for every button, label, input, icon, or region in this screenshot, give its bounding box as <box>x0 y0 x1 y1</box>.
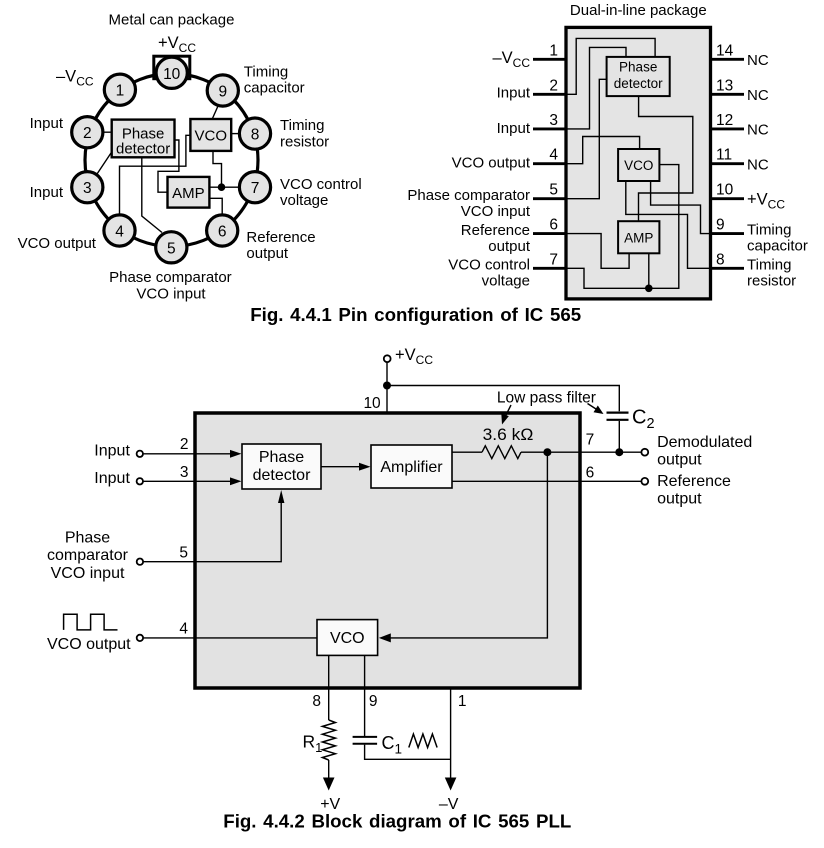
arrow +V <box>323 778 335 791</box>
wire pin4 to VCO top <box>566 137 640 164</box>
wire pin7 to bottom rail to VCO right <box>566 165 679 289</box>
svg-text:Dual-in-line package: Dual-in-line package <box>570 2 707 19</box>
Phase detector box <box>242 444 321 489</box>
junction dot C2 line <box>615 448 623 456</box>
square wave glyph <box>64 614 118 630</box>
svg-text:NC: NC <box>747 52 769 69</box>
svg-text:NC: NC <box>747 122 769 139</box>
right pin numbers <box>716 42 734 268</box>
wire+arrow pin2 to Phase detector <box>143 453 233 455</box>
resistor 3.6k zigzag <box>482 446 521 459</box>
svg-text:3: 3 <box>83 180 92 197</box>
pin 8 <box>239 118 270 149</box>
pin 6 stub <box>533 232 566 235</box>
svg-text:detector: detector <box>614 76 663 91</box>
svg-text:Input: Input <box>497 120 531 137</box>
svg-text:VCO: VCO <box>624 158 653 173</box>
svg-text:9: 9 <box>218 84 227 101</box>
IC body box <box>195 413 580 688</box>
svg-text:+VCC: +VCC <box>395 346 433 367</box>
feedback wire from pin7 node to VCO <box>388 452 547 638</box>
svg-text:NC: NC <box>747 87 769 104</box>
svg-text:10: 10 <box>163 66 181 83</box>
pin circles 1-10 <box>72 57 271 263</box>
svg-text:AMP: AMP <box>172 185 205 202</box>
pin 9 <box>207 75 238 106</box>
wire+arrow pin3 to Phase detector <box>143 480 233 482</box>
svg-text:Input: Input <box>94 470 130 487</box>
svg-text:Phase comparator: Phase comparator <box>109 269 232 286</box>
pin 2 <box>72 117 103 148</box>
wire Phase detector bottom to AMP top <box>639 96 693 221</box>
capacitor C2 plates <box>607 412 629 414</box>
wire pin2 to Phase detector <box>95 131 112 133</box>
svg-text:7: 7 <box>586 432 595 449</box>
svg-text:Reference: Reference <box>657 473 731 490</box>
wire pin2 to Phase detector top <box>566 38 655 94</box>
AMP box <box>168 177 210 208</box>
wire pin9 to VCO <box>212 97 222 120</box>
svg-text:Timing: Timing <box>747 222 791 239</box>
pin 2 stub <box>533 93 566 96</box>
svg-text:8: 8 <box>716 251 725 268</box>
wire AMP to pin6 <box>209 198 222 215</box>
svg-text:5: 5 <box>549 182 558 199</box>
pin-10 tab square <box>154 56 190 78</box>
pin numbers <box>83 66 259 257</box>
svg-text:VCO input: VCO input <box>136 286 206 303</box>
svg-text:Timing: Timing <box>747 256 791 273</box>
arrow from label to C2 <box>588 404 597 410</box>
+Vcc terminal circle <box>384 355 391 362</box>
pin1 wire from box bottom <box>450 688 452 779</box>
pin 3 <box>72 172 103 203</box>
pin5 terminal <box>137 559 143 565</box>
pin 12 stub <box>711 127 745 130</box>
svg-text:output: output <box>246 245 289 262</box>
wire AMP bottom to ground junction <box>648 253 650 288</box>
svg-text:VCO output: VCO output <box>47 636 131 653</box>
wire pin4 to VCO <box>143 637 317 639</box>
svg-text:VCO: VCO <box>330 630 365 647</box>
svg-text:Fig. 4.4.2 Block diagram of IC: Fig. 4.4.2 Block diagram of IC 565 PLL <box>223 810 571 831</box>
reference output terminal <box>641 478 648 485</box>
left pin numbers <box>549 42 558 268</box>
svg-text:Low pass filter: Low pass filter <box>497 390 596 407</box>
svg-text:Phase: Phase <box>65 530 110 547</box>
pin8 wire from VCO bottom <box>328 655 330 720</box>
wire resistor to demodulated output terminal <box>521 451 641 453</box>
svg-text:Reference: Reference <box>246 229 315 246</box>
internal wires <box>566 38 711 288</box>
svg-text:1: 1 <box>458 693 467 710</box>
svg-text:Input: Input <box>30 115 64 132</box>
svg-text:voltage: voltage <box>482 273 530 290</box>
left pin stubs 1-7 <box>533 59 744 268</box>
svg-text:AMP: AMP <box>624 230 653 245</box>
wire pin3 to Phase detector top <box>566 47 626 128</box>
svg-text:1: 1 <box>549 42 558 59</box>
pin 5 stub <box>533 197 566 200</box>
svg-text:Reference: Reference <box>461 222 530 239</box>
wire C2 to output line <box>618 421 620 452</box>
pin 4 <box>104 215 135 246</box>
pin 4 stub <box>533 162 566 165</box>
svg-text:NC: NC <box>747 156 769 173</box>
arrow from label to resistor <box>506 405 512 416</box>
pin 1 stub <box>533 58 566 61</box>
wire pin3 to Phase detector <box>97 152 112 175</box>
svg-text:VCO input: VCO input <box>51 565 125 582</box>
svg-text:Timing: Timing <box>244 64 288 81</box>
svg-text:9: 9 <box>716 217 725 234</box>
pin 10 <box>156 57 187 88</box>
AMP box (DIP) <box>618 221 659 253</box>
svg-text:3: 3 <box>549 112 558 129</box>
svg-text:C2: C2 <box>632 407 655 433</box>
svg-text:Input: Input <box>30 184 64 201</box>
wire pin5 to Phase detector left <box>566 79 607 198</box>
svg-text:3.6 kΩ: 3.6 kΩ <box>483 426 534 444</box>
pin 3 stub <box>533 127 566 130</box>
wire pin10 vertical <box>386 362 388 413</box>
svg-text:8: 8 <box>312 693 321 710</box>
svg-text:7: 7 <box>251 180 260 197</box>
svg-text:4: 4 <box>549 147 558 164</box>
svg-text:voltage: voltage <box>280 192 328 209</box>
svg-text:–VCC: –VCC <box>492 49 530 70</box>
svg-text:Amplifier: Amplifier <box>380 459 443 476</box>
svg-text:8: 8 <box>251 127 260 144</box>
pin 14 stub <box>711 58 745 61</box>
pin 13 stub <box>711 93 745 96</box>
svg-text:1: 1 <box>116 83 125 100</box>
Amplifier box <box>371 445 452 488</box>
wire pin8 to VCO <box>231 133 242 135</box>
svg-text:VCO control: VCO control <box>448 257 530 274</box>
svg-text:+VCC: +VCC <box>747 191 785 212</box>
arrow -V <box>445 778 457 791</box>
pin 5 <box>156 232 187 263</box>
svg-text:Input: Input <box>94 443 130 460</box>
junction dot <box>218 183 226 191</box>
svg-text:5: 5 <box>167 240 176 257</box>
pin 7 stub <box>533 267 566 270</box>
svg-text:3: 3 <box>180 464 189 481</box>
svg-text:detector: detector <box>253 467 311 484</box>
junction dot on bottom rail <box>645 285 653 293</box>
svg-text:Demodulated: Demodulated <box>657 434 752 451</box>
wire pin6 to AMP bottom <box>566 234 629 269</box>
wire AMP output to pin7 <box>209 186 239 188</box>
svg-text:10: 10 <box>716 182 734 199</box>
small zigzag glyph next to C1 <box>409 734 437 748</box>
svg-text:11: 11 <box>716 147 732 164</box>
pin 10 stub <box>711 197 745 200</box>
wire VCO bottom to junction <box>213 151 222 187</box>
wire Phase detector output to AMP input <box>158 140 179 192</box>
VCO box <box>190 119 231 151</box>
svg-text:VCO control: VCO control <box>280 176 362 193</box>
svg-text:2: 2 <box>180 436 189 453</box>
svg-text:Input: Input <box>497 85 531 102</box>
svg-text:6: 6 <box>549 217 558 234</box>
svg-text:2: 2 <box>549 77 558 94</box>
svg-text:14: 14 <box>716 42 734 59</box>
svg-text:+VCC: +VCC <box>158 34 196 55</box>
svg-text:VCO: VCO <box>195 128 228 145</box>
svg-text:5: 5 <box>179 545 188 562</box>
pin3 terminal <box>137 478 143 484</box>
pin 7 <box>239 172 270 203</box>
can outline ring <box>85 74 258 247</box>
svg-text:7: 7 <box>549 251 558 268</box>
svg-text:Phase comparator: Phase comparator <box>407 187 530 204</box>
pin4 terminal <box>137 635 143 641</box>
pin 6 <box>207 215 238 246</box>
wire pin4 to VCO input <box>120 135 191 214</box>
svg-text:Phase: Phase <box>259 449 304 466</box>
svg-text:Metal can package: Metal can package <box>109 12 235 29</box>
wire Phase detector to pin5 <box>142 157 162 232</box>
wire VCO bottom-left to pin8 (timing resistor) <box>626 181 711 268</box>
svg-text:detector: detector <box>116 141 170 158</box>
svg-text:VCO input: VCO input <box>461 203 531 220</box>
svg-text:12: 12 <box>716 112 733 129</box>
svg-text:output: output <box>488 238 531 255</box>
pin9 wire from VCO bottom <box>364 655 366 736</box>
pin 9 stub <box>711 232 745 235</box>
pin2 terminal <box>137 451 143 457</box>
svg-text:output: output <box>657 491 702 508</box>
VCO box (DIP) <box>618 149 659 181</box>
svg-text:comparator: comparator <box>47 547 129 564</box>
svg-text:R1: R1 <box>303 732 323 756</box>
arrow Phase detector to Amplifier <box>321 466 362 468</box>
svg-text:13: 13 <box>716 77 733 94</box>
Phase detector box (DIP) <box>607 57 670 96</box>
VCO box <box>317 620 378 656</box>
svg-text:10: 10 <box>363 395 381 412</box>
svg-text:2: 2 <box>83 125 92 142</box>
svg-text:VCO output: VCO output <box>18 235 97 252</box>
wire C1 bottom to pin1 line <box>365 745 451 760</box>
wire+arrow pin5 to Phase detector bottom <box>143 500 281 562</box>
DIP body <box>566 27 711 299</box>
svg-text:Fig. 4.4.1 Pin configuration o: Fig. 4.4.1 Pin configuration of IC 565 <box>250 304 581 325</box>
wire VCO bottom to pin9 (timing capacitor) <box>651 181 711 234</box>
svg-text:9: 9 <box>369 693 378 710</box>
wire +Vcc to C2 <box>387 386 619 412</box>
svg-text:4: 4 <box>179 621 188 638</box>
capacitor C1 plates <box>353 736 378 738</box>
Phase detector box <box>112 120 175 158</box>
resistor R1 zigzag <box>322 720 335 760</box>
svg-text:Timing: Timing <box>280 117 324 134</box>
svg-text:4: 4 <box>115 224 124 241</box>
wire Amplifier to resistor <box>452 451 482 453</box>
svg-text:capacitor: capacitor <box>747 238 808 255</box>
svg-text:capacitor: capacitor <box>244 80 305 97</box>
svg-text:resistor: resistor <box>747 272 796 289</box>
wire pin6 reference output <box>452 480 641 482</box>
svg-text:6: 6 <box>586 465 595 482</box>
svg-text:C1: C1 <box>382 733 403 757</box>
demodulated output terminal <box>641 449 648 456</box>
svg-text:6: 6 <box>218 224 227 241</box>
svg-text:VCO output: VCO output <box>452 155 531 172</box>
svg-text:resistor: resistor <box>280 134 329 151</box>
junction dot pin7 line <box>543 448 551 456</box>
pin 1 <box>104 74 135 105</box>
svg-text:output: output <box>657 452 702 469</box>
wire R1 to arrow <box>328 760 330 779</box>
pin 8 stub <box>711 267 745 270</box>
svg-text:–VCC: –VCC <box>56 68 94 89</box>
pin 11 stub <box>711 162 745 165</box>
svg-text:Phase: Phase <box>619 60 657 75</box>
junction dot on +Vcc wire <box>383 382 391 390</box>
